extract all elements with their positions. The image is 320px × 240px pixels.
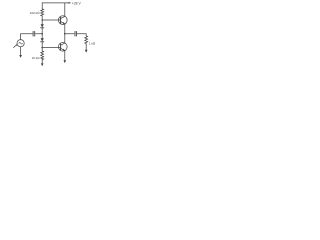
svg-text:1 kΩ: 1 kΩ — [89, 41, 96, 45]
resistor R3 — [85, 36, 88, 44]
supply arrow — [69, 2, 72, 4]
transistor Q2 — [58, 42, 67, 51]
node output junction dot — [64, 33, 66, 35]
wire R2 to ground — [41, 60, 43, 64]
node base Q2 junction dot — [41, 47, 43, 49]
Q1 emitter arrowhead — [63, 22, 65, 24]
ground arrow under R2 — [41, 63, 44, 66]
wire output node to C2 — [65, 33, 74, 35]
wire R3 to ground — [85, 44, 87, 50]
capacitor C2 — [74, 31, 76, 36]
svg-text:10 kΩ: 10 kΩ — [32, 56, 41, 60]
transistor Q1 — [58, 16, 67, 25]
source annotation arrow — [14, 45, 17, 48]
svg-text:100 kΩ: 100 kΩ — [30, 11, 41, 15]
wire top supply rail — [42, 2, 69, 4]
wire R1 to diode D1 — [41, 16, 43, 24]
wire Q2 emitter to ground — [64, 51, 66, 61]
svg-text:+28 V: +28 V — [72, 1, 82, 5]
node input junction dot — [41, 33, 43, 35]
node base Q1 junction dot — [41, 19, 43, 21]
diode D2 — [41, 38, 44, 41]
wire base of Q1 — [42, 19, 60, 21]
ground arrow under R3 — [85, 50, 88, 53]
resistor R1 — [41, 9, 44, 16]
resistor R2 — [41, 51, 44, 60]
wire D2 to R2 — [41, 42, 43, 51]
wire C2 to load R3 — [77, 34, 86, 36]
wire Q1 emitter to Q2 collector — [64, 24, 66, 43]
wire base of Q2 — [42, 47, 60, 49]
wire C1 to bias chain — [36, 33, 43, 35]
wire from rail down to R1 — [41, 3, 43, 9]
wire source top to input cap — [21, 34, 33, 40]
diode D1 — [41, 24, 44, 27]
wire D1 to D2 — [41, 28, 43, 39]
capacitor C1 — [32, 31, 34, 36]
Q2 emitter arrowhead — [63, 49, 65, 51]
wire source bottom to ground — [20, 47, 22, 55]
ground arrow under source — [19, 55, 22, 58]
ground arrow under Q2 — [64, 60, 67, 63]
AC source vs — [17, 40, 24, 47]
